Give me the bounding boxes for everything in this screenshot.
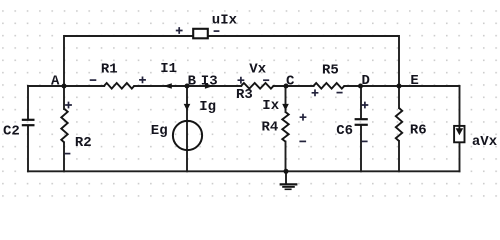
svg-text:aVx: aVx <box>472 134 498 150</box>
svg-text:A: A <box>51 73 60 89</box>
svg-text:R2: R2 <box>75 135 92 151</box>
svg-text:C2: C2 <box>3 123 20 139</box>
svg-text:Ig: Ig <box>199 99 216 115</box>
svg-text:R3: R3 <box>236 87 253 103</box>
svg-text:B: B <box>188 74 197 90</box>
svg-text:D: D <box>362 73 370 89</box>
svg-text:uIx: uIx <box>212 13 238 29</box>
svg-text:R1: R1 <box>101 61 118 77</box>
svg-text:R6: R6 <box>410 123 427 139</box>
svg-text:R5: R5 <box>322 63 339 79</box>
svg-text:Eg: Eg <box>151 123 168 139</box>
svg-text:I1: I1 <box>160 61 177 77</box>
svg-text:C6: C6 <box>336 123 353 139</box>
svg-text:E: E <box>410 73 418 89</box>
svg-text:Ix: Ix <box>262 98 279 114</box>
svg-text:I3: I3 <box>201 74 218 90</box>
svg-text:Vx: Vx <box>249 61 266 77</box>
svg-text:R4: R4 <box>262 120 279 136</box>
svg-text:C: C <box>286 74 295 90</box>
